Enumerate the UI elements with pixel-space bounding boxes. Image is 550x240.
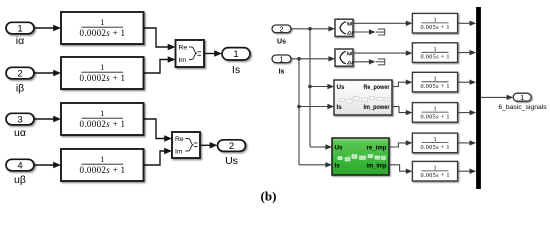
svg-text:0.0002s + 1: 0.0002s + 1 xyxy=(80,28,126,38)
wire Is vertical bus xyxy=(298,59,300,165)
svg-text:0.0002s + 1: 0.0002s + 1 xyxy=(80,165,126,175)
wire Is to power subsystem xyxy=(299,104,334,109)
wire MA1 mag to TFa xyxy=(353,21,412,26)
svg-text:1: 1 xyxy=(100,109,104,118)
junction Us bus xyxy=(308,27,312,31)
svg-text:im_imp: im_imp xyxy=(367,162,387,169)
svg-text:1: 1 xyxy=(520,95,524,102)
svg-text:1: 1 xyxy=(433,16,436,23)
svg-text:Im_power: Im_power xyxy=(364,104,390,111)
inport 1 (ialpha) xyxy=(6,22,34,34)
svg-text:Us: Us xyxy=(337,84,346,91)
wire MA2 angle to terminator T2 xyxy=(353,59,376,64)
svg-text:0.005s + 1: 0.005s + 1 xyxy=(421,24,450,31)
svg-text:0.005s + 1: 0.005s + 1 xyxy=(421,144,450,151)
svg-text:Is: Is xyxy=(232,64,240,76)
svg-text:iα: iα xyxy=(16,35,24,47)
wire re_imp to TFe xyxy=(389,140,412,147)
wire TFf to mux xyxy=(458,169,477,174)
inport 1 right (Is) xyxy=(272,55,291,64)
svg-text:Im: Im xyxy=(175,149,183,156)
wire U2 to outport Us xyxy=(200,142,218,148)
transfer function block TF1 1/(0.0002s+1) xyxy=(61,12,144,44)
wire Us to power subsystem xyxy=(310,84,334,89)
wire MA1 angle to terminator T1 xyxy=(353,29,376,34)
transfer function block TF3 1/(0.0002s+1) xyxy=(61,103,144,135)
junction Is bus xyxy=(297,57,301,61)
transfer function block TF4 1/(0.0002s+1) xyxy=(61,149,144,181)
svg-text:0.005s + 1: 0.005s + 1 xyxy=(421,83,450,90)
outport 2 (Us) xyxy=(218,140,246,152)
wire Us vertical bus xyxy=(309,29,311,147)
inport 3 (ualpha) xyxy=(6,113,34,125)
transfer function block TF2 1/(0.0002s+1) xyxy=(61,57,144,89)
svg-text:0.005s + 1: 0.005s + 1 xyxy=(421,172,450,179)
svg-text:Re_power: Re_power xyxy=(364,84,390,91)
terminator T2 xyxy=(376,59,385,65)
svg-text:Us: Us xyxy=(335,145,344,152)
svg-text:Re: Re xyxy=(179,45,188,52)
svg-text:1: 1 xyxy=(233,49,238,60)
svg-text:re_imp: re_imp xyxy=(367,145,387,152)
inport 2 right (Us) xyxy=(272,25,291,34)
svg-text:1: 1 xyxy=(17,23,22,34)
svg-text:2: 2 xyxy=(229,141,234,152)
svg-text:1: 1 xyxy=(100,155,104,164)
svg-text:6_basic_signals: 6_basic_signals xyxy=(498,104,547,111)
svg-text:uα: uα xyxy=(14,127,26,139)
svg-text:Us: Us xyxy=(277,38,286,45)
wire inport3 to TF3 xyxy=(34,116,61,122)
svg-text:3: 3 xyxy=(17,114,22,125)
wire inport4 to TF4 xyxy=(34,162,61,168)
wire TF2 to U1 Im input xyxy=(144,56,176,73)
svg-text:iβ: iβ xyxy=(16,83,24,95)
wire Is to MA2 xyxy=(291,56,335,61)
svg-text:4: 4 xyxy=(17,160,22,171)
wire im_imp to TFf xyxy=(389,165,412,174)
wire TFe to mux xyxy=(458,140,477,145)
svg-text:0.0002s + 1: 0.0002s + 1 xyxy=(80,119,126,129)
svg-text:1: 1 xyxy=(100,18,104,27)
svg-text:1: 1 xyxy=(100,63,104,72)
wire Im_power to TFd xyxy=(392,107,412,116)
wire TFa to mux xyxy=(458,21,477,26)
wire TF3 to U2 Re input xyxy=(144,119,173,142)
mux xyxy=(476,7,481,189)
wire TFc to mux xyxy=(458,80,477,85)
svg-text:(b): (b) xyxy=(261,189,277,204)
transfer function block TFd 1/(0.005s+1) xyxy=(412,103,457,123)
outport 1 (6_basic_signals) xyxy=(513,93,531,102)
wire Us bus to green subsystem xyxy=(310,144,332,149)
real-imag to complex block U2 xyxy=(172,132,200,158)
outport 1 (Is) xyxy=(222,48,250,61)
svg-text:Is: Is xyxy=(335,162,341,169)
wire MA2 mag to TFb xyxy=(353,50,412,55)
wire inport1 to TF1 xyxy=(34,25,61,31)
svg-text:0.005s + 1: 0.005s + 1 xyxy=(421,113,450,120)
complex to magnitude-angle block MA1 xyxy=(335,19,353,36)
svg-text:1: 1 xyxy=(433,136,436,143)
wire TFb to mux xyxy=(458,50,477,55)
transfer function block TFf 1/(0.005s+1) xyxy=(412,161,457,181)
transfer function block TFe 1/(0.005s+1) xyxy=(412,133,457,153)
svg-text:1: 1 xyxy=(433,75,436,82)
wire TFd to mux xyxy=(458,110,477,115)
transfer function block TFc 1/(0.005s+1) xyxy=(412,72,457,92)
inport 4 (ubeta) xyxy=(6,159,34,171)
green impedance subsystem block xyxy=(332,138,389,175)
wire mux to outport xyxy=(481,95,513,100)
svg-text:1: 1 xyxy=(433,106,436,113)
svg-text:Is: Is xyxy=(279,68,285,75)
svg-text:1: 1 xyxy=(280,57,284,64)
transfer function block TFa 1/(0.005s+1) xyxy=(412,13,457,33)
terminator T1 xyxy=(376,29,385,35)
svg-text:Im: Im xyxy=(179,57,187,64)
wire TF4 to U2 Im input xyxy=(144,148,173,165)
wire Us to MA1 xyxy=(291,26,335,31)
svg-text:0.0002s + 1: 0.0002s + 1 xyxy=(80,73,126,83)
svg-text:0.005s + 1: 0.005s + 1 xyxy=(421,54,450,61)
wire Is bus to green subsystem xyxy=(299,162,332,167)
svg-text:1: 1 xyxy=(433,164,436,171)
power subsystem block xyxy=(334,80,392,115)
svg-text:2: 2 xyxy=(280,27,284,34)
svg-text:Is: Is xyxy=(337,104,343,111)
transfer function block TFb 1/(0.005s+1) xyxy=(412,43,457,63)
junction Us to power subsystem xyxy=(308,85,312,89)
svg-text:Us: Us xyxy=(225,155,238,167)
svg-text:uβ: uβ xyxy=(14,174,26,186)
svg-text:2: 2 xyxy=(17,68,22,79)
complex to magnitude-angle block MA2 xyxy=(335,49,353,66)
svg-text:Re: Re xyxy=(175,136,184,143)
svg-text:1: 1 xyxy=(433,46,436,53)
wire inport2 to TF2 xyxy=(34,70,61,76)
inport 2 (ibeta) xyxy=(6,67,34,79)
wire U1 to outport Is xyxy=(204,50,222,56)
wire TF1 to U1 Re input xyxy=(144,28,176,50)
junction Is to power subsystem xyxy=(297,105,301,109)
wire Re_power to TFc xyxy=(392,80,412,87)
real-imag to complex block U1 xyxy=(176,40,205,67)
